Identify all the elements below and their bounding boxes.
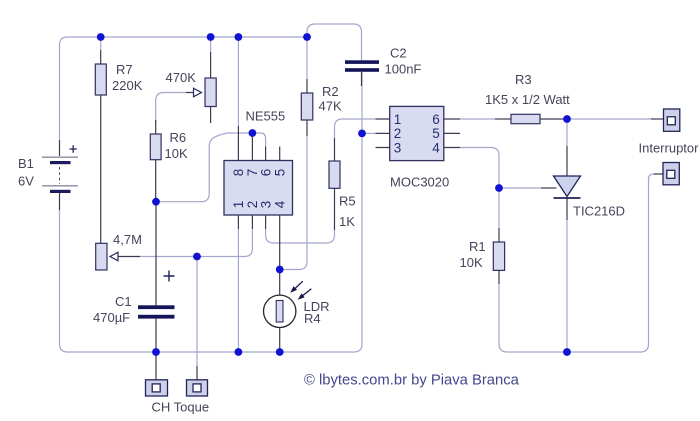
node LDR bottom rail <box>276 348 284 356</box>
capacitor C2 bottom lead <box>361 72 363 86</box>
svg-text:470K: 470K <box>166 70 197 85</box>
svg-text:220K: 220K <box>112 78 143 93</box>
wire node to touch pad 2 drop <box>196 257 198 367</box>
svg-text:1: 1 <box>231 201 246 209</box>
wire gate node to R1 top <box>498 188 500 228</box>
node triac bottom rail <box>563 348 571 356</box>
triac top lead <box>566 146 568 176</box>
node pin7 <box>249 129 257 137</box>
node pin8 top <box>235 33 243 41</box>
wiper arrow leads <box>118 93 194 257</box>
terminal pad CH toque 2 <box>187 380 208 396</box>
MOC3020 left pin stubs <box>376 119 391 148</box>
svg-text:R5: R5 <box>339 194 356 209</box>
svg-text:CH Toque: CH Toque <box>152 400 210 415</box>
svg-text:1K5 x 1/2 Watt: 1K5 x 1/2 Watt <box>485 92 570 107</box>
wire MOC pin4 to gate node <box>460 148 499 189</box>
svg-text:© lbytes.com.br by Piava Branc: © lbytes.com.br by Piava Branca <box>304 373 520 389</box>
svg-text:8: 8 <box>231 169 246 177</box>
resistor R2 leads <box>306 79 308 136</box>
resistor R7 <box>95 64 106 95</box>
svg-text:R6: R6 <box>170 130 187 145</box>
LDR R4 circle <box>264 295 296 327</box>
wire triac top light <box>566 119 568 146</box>
svg-text:100nF: 100nF <box>385 62 422 77</box>
resistor R6 leads <box>155 120 157 202</box>
node R7 top <box>97 33 105 41</box>
potentiometer 4,7M wiper arrow <box>110 252 118 260</box>
triac TIC216D triangle <box>554 176 581 197</box>
resistor R5 <box>329 161 340 188</box>
wire battery bottom to bottom-left rail and C2 vertical <box>60 72 363 352</box>
NE555 bottom pin stubs <box>238 215 265 229</box>
node gate R1 <box>495 184 503 192</box>
svg-text:R4: R4 <box>304 311 321 326</box>
wire NE555 pin1 drop to bottom rail <box>237 229 239 352</box>
node R6 bottom <box>152 198 160 206</box>
svg-text:1K: 1K <box>339 214 355 229</box>
MOC3020 right pin stubs <box>444 119 460 148</box>
resistor R1 leads <box>498 228 500 284</box>
svg-text:R2: R2 <box>322 84 339 99</box>
node 470K top <box>207 33 215 41</box>
triac TIC216D cathode bar <box>554 197 581 199</box>
NE555 pin4 lead and LDR leads <box>279 215 281 352</box>
svg-text:5: 5 <box>273 169 288 177</box>
svg-text:4,7M: 4,7M <box>113 232 142 247</box>
svg-text:6V: 6V <box>18 174 34 189</box>
svg-text:B1: B1 <box>18 156 34 171</box>
capacitor C2 plates <box>345 60 379 64</box>
svg-text:4: 4 <box>273 200 288 208</box>
resistor R3 <box>511 114 540 123</box>
potentiometer 470K body <box>205 78 216 107</box>
IC NE555 body <box>224 161 293 216</box>
resistor R2 <box>301 93 313 120</box>
svg-text:47K: 47K <box>319 99 342 114</box>
LDR R4 inner box <box>276 301 283 323</box>
node wiper pad2 <box>193 253 201 261</box>
svg-text:R1: R1 <box>469 239 486 254</box>
wire R2 top lead light <box>306 37 308 79</box>
node LDR top <box>276 266 284 274</box>
svg-text:R7: R7 <box>116 62 133 77</box>
wire gate horizontal <box>499 187 541 189</box>
resistor R6 <box>150 134 161 160</box>
capacitor C1 plates <box>138 305 175 309</box>
resistor R5 leads <box>334 138 336 230</box>
node C2 MOC pin2 <box>358 130 366 138</box>
svg-text:3: 3 <box>394 140 402 155</box>
wire triac bottom to right rail <box>566 220 568 352</box>
terminal pad interruptor 1 <box>664 109 680 131</box>
svg-text:1: 1 <box>394 112 402 127</box>
wire MOC pin1 to R5 top <box>335 119 376 138</box>
svg-text:Interruptor: Interruptor <box>639 141 700 156</box>
wire R1 bottom to right rail and interruptor terminal 2 <box>499 174 656 352</box>
battery B1 plates <box>42 145 78 193</box>
wire NE555 pin8 to top rail <box>237 37 239 126</box>
terminal pad interruptor 2 <box>663 163 679 185</box>
terminal pad CH toque 1 <box>146 380 168 396</box>
battery B1 bottom lead <box>59 193 61 210</box>
LDR arrow 1 <box>291 281 311 299</box>
triac bottom lead <box>566 198 568 220</box>
node R2 C2 top <box>303 33 311 41</box>
LDR arrow 2 <box>302 289 312 297</box>
wire NE555 pin3 to R5 bottom <box>266 229 335 243</box>
node C1 bottom rail <box>152 348 160 356</box>
svg-text:2: 2 <box>394 126 402 141</box>
svg-text:C1: C1 <box>115 294 132 309</box>
resistor R7 leads <box>100 50 102 243</box>
wire 470K pot top lead light <box>210 37 212 52</box>
potentiometer 470K leads <box>210 52 212 123</box>
wire R6 node to NE555 pin7 and pin6 <box>156 133 266 202</box>
wire R7 top lead light <box>100 37 102 50</box>
wire R6 top to 470K wiper arrow <box>156 93 186 123</box>
svg-text:3: 3 <box>258 201 273 209</box>
svg-text:NE555: NE555 <box>246 109 286 124</box>
svg-text:10K: 10K <box>165 146 188 161</box>
capacitor C1 plus sign <box>164 271 175 282</box>
NE555 top pin stubs <box>238 126 279 161</box>
wire R3 to interruptor terminal 1 <box>567 118 651 120</box>
potentiometer 4,7M body <box>96 243 107 270</box>
svg-text:MOC3020: MOC3020 <box>390 175 449 190</box>
optocoupler MOC3020 body <box>390 106 444 160</box>
capacitor C1 leads <box>155 202 157 380</box>
potentiometer 470K wiper arrow <box>194 88 202 96</box>
wire node to MOC pin2 <box>362 132 376 134</box>
touch pad 2 stub <box>196 366 198 380</box>
node R3 triac top <box>563 115 571 123</box>
svg-text:10K: 10K <box>460 255 483 270</box>
battery B1 top lead <box>59 140 61 156</box>
svg-text:TIC216D: TIC216D <box>573 204 625 219</box>
resistor R1 <box>493 242 504 270</box>
svg-text:C2: C2 <box>390 46 407 61</box>
svg-text:5: 5 <box>432 126 440 141</box>
gate lead dark <box>541 187 557 189</box>
wire R2 bottom to LDR top node <box>280 136 307 270</box>
node pin1 rail <box>235 348 243 356</box>
wire MOC pin6 to R3 <box>460 118 495 120</box>
svg-text:4: 4 <box>432 140 440 155</box>
svg-text:R3: R3 <box>515 72 532 87</box>
wire left rail top and top rail to C2 corner <box>60 24 362 141</box>
wire NE555 pin2 to 4,7M wiper run <box>140 229 252 257</box>
terminal 1 lead dark <box>651 118 664 120</box>
svg-text:6: 6 <box>432 112 440 127</box>
terminal 2 lead dark <box>654 173 663 175</box>
svg-text:6: 6 <box>258 169 273 177</box>
svg-text:470µF: 470µF <box>93 310 130 325</box>
